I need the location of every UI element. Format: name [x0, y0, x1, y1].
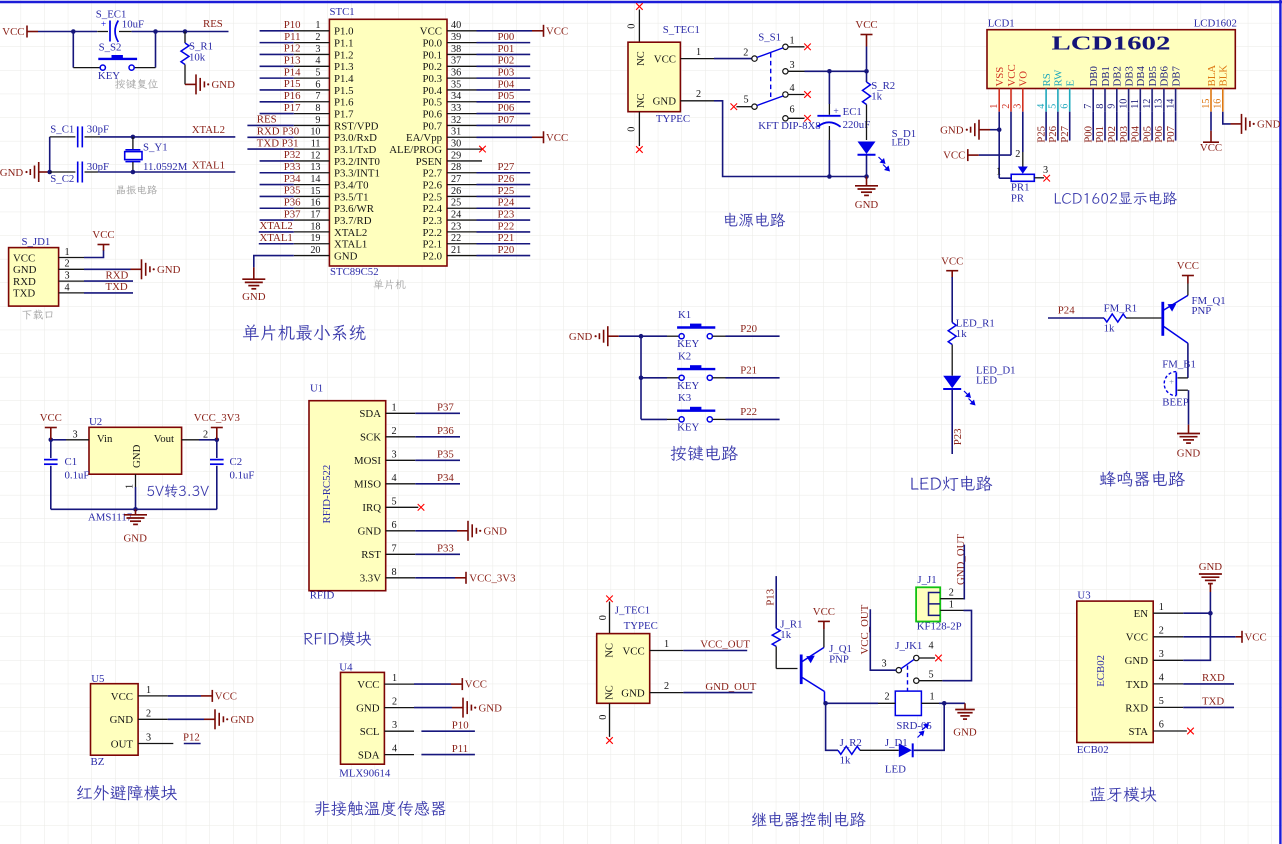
svg-text:RXD: RXD	[1202, 672, 1225, 684]
power port VCC (buzzer)	[1177, 260, 1199, 283]
J_TEC1 pin 1	[650, 639, 684, 651]
wire LCD DB0 / net P00	[1082, 112, 1094, 143]
svg-text:2: 2	[696, 89, 701, 100]
J_TEC1 bottom pin 0	[598, 703, 610, 737]
svg-text:9: 9	[1107, 104, 1118, 109]
sensor U4 MLX90614 body	[339, 661, 391, 779]
svg-text:STA: STA	[1128, 726, 1148, 738]
wire LCD DB5 / net P05	[1141, 112, 1153, 143]
svg-text:4: 4	[392, 744, 397, 755]
svg-text:S_S1: S_S1	[758, 32, 781, 44]
svg-text:RFID-RC522: RFID-RC522	[321, 465, 333, 524]
power port GND (keys)	[569, 326, 619, 346]
svg-text:P21: P21	[498, 232, 515, 244]
resistor FM_R1 1k	[1104, 302, 1162, 334]
svg-text:0: 0	[627, 127, 638, 132]
wire VCC to FM_Q1 emitter	[1187, 284, 1189, 296]
power port GND (power circuit)	[855, 177, 879, 212]
svg-text:VCC: VCC	[465, 679, 487, 691]
connector J_J1 KF128-2P	[916, 574, 963, 633]
svg-text:1: 1	[146, 685, 151, 696]
svg-text:3: 3	[1159, 649, 1164, 660]
switch K3 KEY	[641, 392, 726, 433]
svg-text:J_JK1: J_JK1	[895, 640, 922, 652]
svg-text:1: 1	[989, 104, 1000, 109]
power port GND (U1)	[457, 521, 507, 541]
U1 pin 2 SCK	[360, 426, 415, 444]
svg-text:P06: P06	[1153, 125, 1165, 142]
svg-text:DB7: DB7	[1170, 66, 1182, 87]
svg-text:2: 2	[392, 426, 397, 437]
wire LCD RW / net P26	[1047, 112, 1059, 143]
svg-text:30: 30	[451, 139, 461, 150]
wire U2 gnd rail	[51, 508, 217, 510]
svg-text:P25: P25	[1035, 126, 1047, 143]
svg-text:P22: P22	[498, 220, 515, 232]
no-connect X (J_TEC1 bottom)	[606, 737, 613, 744]
LCD1 pin 4 RS	[1036, 73, 1053, 111]
wire P36	[415, 436, 460, 438]
junction (EC1 top)	[827, 69, 832, 74]
svg-text:P34: P34	[437, 472, 454, 484]
svg-text:P3.6/WR: P3.6/WR	[334, 203, 375, 215]
svg-text:RW: RW	[1053, 69, 1065, 87]
svg-text:P24: P24	[1058, 305, 1075, 317]
svg-text:P2.2: P2.2	[422, 227, 442, 239]
no-connect X (J_JK1 pin4)	[935, 655, 942, 662]
title 蜂鸣器电路	[1100, 471, 1185, 487]
svg-text:SCK: SCK	[360, 432, 381, 444]
svg-text:J_R2: J_R2	[840, 737, 862, 749]
STC1 pin 15 P3.5/T1	[260, 185, 369, 204]
svg-text:17: 17	[310, 209, 320, 220]
U5 pin 3 OUT	[111, 733, 174, 751]
svg-text:GND: GND	[621, 687, 645, 699]
svg-text:37: 37	[451, 56, 461, 67]
no-connect X (U3 STA)	[1187, 728, 1194, 735]
svg-text:3: 3	[882, 659, 887, 670]
switch K1 KEY	[667, 309, 726, 350]
svg-text:P26: P26	[498, 173, 515, 185]
junction (relay coil left)	[823, 701, 828, 706]
power port GND (reset)	[185, 74, 235, 94]
svg-text:P3.1/TxD: P3.1/TxD	[334, 144, 376, 156]
svg-text:5: 5	[315, 68, 320, 79]
LCD1 pin 2 VCC	[1001, 64, 1018, 111]
LCD1 pin 7 DB0	[1083, 66, 1100, 112]
svg-text:1: 1	[392, 673, 397, 684]
svg-text:P1.7: P1.7	[334, 109, 354, 121]
svg-text:0: 0	[627, 24, 638, 29]
svg-text:4: 4	[1036, 104, 1047, 109]
U1 pin 7 RST	[361, 543, 415, 561]
svg-text:3: 3	[790, 60, 795, 71]
svg-text:GND: GND	[484, 526, 508, 538]
wire LCD BLK	[1223, 112, 1231, 124]
svg-text:SDA: SDA	[359, 408, 381, 420]
annotation 单片机	[374, 279, 406, 289]
svg-text:K3: K3	[678, 392, 691, 404]
svg-text:VCC: VCC	[654, 53, 676, 65]
svg-text:VCC: VCC	[92, 229, 114, 241]
STC1 pin 23 P2.2	[422, 220, 530, 239]
wire GND_OUT	[683, 692, 752, 694]
svg-text:P11: P11	[452, 743, 468, 755]
svg-text:XTAL1: XTAL1	[260, 232, 293, 244]
svg-text:4: 4	[790, 83, 795, 94]
svg-text:K1: K1	[678, 309, 691, 321]
wire LCD DB7 / net P07	[1165, 112, 1177, 143]
U4 pin 4 SDA	[358, 744, 414, 762]
wire VCC to S_EC1	[38, 31, 97, 33]
svg-text:P32: P32	[284, 149, 301, 161]
svg-text:P01: P01	[498, 43, 515, 55]
svg-text:Vout: Vout	[154, 433, 174, 445]
svg-text:IRQ: IRQ	[362, 502, 381, 514]
svg-text:15: 15	[310, 186, 320, 197]
svg-text:P3.4/T0: P3.4/T0	[334, 179, 369, 191]
svg-text:P01: P01	[1094, 126, 1106, 143]
svg-text:9: 9	[315, 115, 320, 126]
svg-text:1k: 1k	[1104, 323, 1115, 335]
svg-text:11: 11	[1130, 99, 1141, 109]
svg-text:GND: GND	[1177, 448, 1201, 460]
connector S_JD1 下载口	[9, 236, 59, 306]
svg-text:18: 18	[310, 221, 320, 232]
STC1 pin 29 PSEN	[416, 150, 482, 168]
svg-text:P10: P10	[452, 719, 469, 731]
svg-text:P02: P02	[1106, 126, 1118, 143]
wire TXD	[84, 292, 133, 294]
svg-text:27: 27	[451, 174, 461, 185]
wire S_JD1 GND	[84, 268, 131, 270]
power port GND (U4)	[452, 698, 502, 718]
no-connect X (J_TEC1 top)	[606, 596, 613, 603]
svg-text:2: 2	[203, 429, 208, 440]
svg-text:14: 14	[1165, 99, 1176, 109]
title LED灯电路	[911, 476, 992, 492]
svg-text:P23: P23	[498, 208, 515, 220]
svg-text:GND: GND	[358, 526, 382, 538]
junction (XTAL1)	[131, 170, 136, 175]
svg-text:P1.1: P1.1	[334, 38, 354, 50]
switch S_S1 KFT DIP-8X8	[736, 32, 820, 132]
svg-text:P33: P33	[437, 542, 454, 554]
lcd LCD1 LCD1602 body	[987, 17, 1237, 88]
wire Vout to VCC_3V3	[199, 439, 217, 441]
svg-text:P2.7: P2.7	[422, 168, 442, 180]
svg-text:3: 3	[146, 733, 151, 744]
svg-text:P20: P20	[740, 323, 757, 335]
STC1 pin 18 XTAL2	[259, 220, 368, 239]
resistor J_R1 1k	[772, 618, 802, 668]
wire keys gnd	[619, 335, 667, 337]
svg-text:P07: P07	[498, 114, 515, 126]
svg-text:P2.4: P2.4	[422, 203, 442, 215]
STC1 pin 31 EA/Vpp	[406, 127, 568, 145]
wire S_EC1 to RES node	[132, 31, 229, 33]
potentiometer PR1 PR	[996, 149, 1048, 205]
wire U3 RXD / net TXD	[1183, 706, 1234, 708]
svg-text:5: 5	[744, 95, 749, 106]
STC1 pin 39 P0.0	[422, 31, 530, 50]
svg-text:P2.0: P2.0	[422, 250, 442, 262]
svg-text:3: 3	[73, 429, 78, 440]
STC1 pin 13 P3.3/INT1	[260, 161, 380, 180]
title 蓝牙模块	[1090, 787, 1157, 802]
STC1 pin 19 XTAL1	[259, 232, 368, 251]
buzzer FM_B1 BEEP	[1162, 358, 1196, 408]
STC1 pin 32 P0.7	[422, 114, 530, 133]
U5 pin 2 GND	[110, 708, 168, 726]
svg-text:RST/VPD: RST/VPD	[334, 120, 379, 132]
svg-text:U4: U4	[339, 661, 353, 673]
wire P35	[415, 459, 460, 461]
svg-text:0.1uF: 0.1uF	[230, 469, 255, 481]
svg-text:2: 2	[65, 259, 70, 270]
svg-text:DB4: DB4	[1135, 66, 1147, 87]
svg-text:DB1: DB1	[1100, 66, 1112, 86]
svg-text:GND: GND	[157, 264, 181, 276]
svg-text:KF128-2P: KF128-2P	[917, 621, 962, 633]
svg-text:1: 1	[930, 692, 935, 703]
wire LCD DB2 / net P02	[1106, 112, 1118, 143]
svg-text:TYPEC: TYPEC	[656, 113, 690, 125]
svg-text:7: 7	[1083, 104, 1094, 109]
svg-text:VCC: VCC	[2, 26, 24, 38]
junction (K2)	[639, 376, 644, 381]
svg-text:0.1uF: 0.1uF	[65, 469, 90, 481]
S_TEC1 bottom pin 0	[627, 112, 640, 146]
STC1 pin 16 P3.6/WR	[260, 196, 375, 215]
svg-text:38: 38	[451, 44, 461, 55]
wire coil row	[826, 702, 878, 704]
U1 pin 5 IRQ	[362, 496, 418, 514]
svg-text:P0.6: P0.6	[422, 109, 442, 121]
svg-text:XTAL2: XTAL2	[192, 124, 225, 136]
wire P10	[421, 730, 475, 732]
svg-text:+: +	[833, 107, 838, 117]
svg-text:VCC: VCC	[813, 606, 835, 618]
power port VCC (U5)	[201, 690, 237, 703]
wire P33	[415, 553, 460, 555]
svg-text:1k: 1k	[956, 328, 967, 340]
svg-text:2: 2	[315, 32, 320, 43]
power port VCC (U3)	[1236, 631, 1267, 644]
STC1 pin 6 P1.5	[260, 78, 354, 97]
LCD1 pin 10 DB3	[1118, 66, 1135, 112]
svg-text:KEY: KEY	[677, 421, 699, 433]
power port GND (LCD BLK)	[1231, 114, 1281, 134]
power port VCC (S_JD1)	[92, 229, 114, 250]
svg-text:GND: GND	[356, 703, 380, 715]
wire crystal gnd up	[49, 137, 51, 172]
svg-text:13: 13	[1154, 99, 1165, 109]
U3 pin 2 VCC	[1126, 625, 1183, 643]
switch S_S2 KEY	[73, 42, 155, 82]
wire U3 GND pin	[1183, 613, 1210, 660]
wire S_TEC1 pin1 to S_S1	[714, 58, 752, 60]
STC1 pin 4 P1.3	[260, 54, 354, 73]
svg-text:1: 1	[696, 47, 701, 58]
U1 pin 6 GND	[358, 520, 416, 538]
svg-text:1: 1	[1159, 602, 1164, 613]
STC1 pin 38 P0.1	[422, 43, 530, 62]
svg-text:16: 16	[1213, 99, 1224, 109]
STC1 pin 8 P1.7	[260, 102, 355, 121]
S_JD1 pin 1 VCC	[13, 247, 84, 264]
svg-text:1k: 1k	[840, 755, 851, 767]
svg-text:BEEP: BEEP	[1162, 396, 1188, 408]
svg-text:PSEN: PSEN	[416, 156, 443, 168]
svg-text:J_J1: J_J1	[917, 574, 936, 586]
svg-text:GND_OUT: GND_OUT	[955, 534, 967, 585]
svg-text:GND: GND	[940, 125, 964, 137]
svg-text:5: 5	[1159, 696, 1164, 707]
annotation 晶振电路	[117, 185, 157, 195]
power port VCC (U4)	[451, 678, 487, 691]
transistor J_Q1 PNP	[801, 643, 852, 704]
svg-text:P10: P10	[284, 19, 301, 31]
svg-text:P2.1: P2.1	[422, 239, 442, 251]
svg-text:3: 3	[392, 449, 397, 460]
svg-text:DB5: DB5	[1147, 66, 1159, 86]
svg-text:DB2: DB2	[1112, 66, 1124, 86]
junction (U3 gnd)	[1208, 611, 1213, 616]
svg-text:LED: LED	[892, 139, 910, 149]
svg-text:26: 26	[451, 186, 461, 197]
svg-text:LCD1602: LCD1602	[1052, 33, 1171, 55]
svg-text:32: 32	[451, 115, 461, 126]
svg-text:1k: 1k	[871, 91, 882, 103]
svg-text:P3.3/INT1: P3.3/INT1	[334, 168, 380, 180]
title 单片机最小系统	[243, 324, 366, 340]
STC1 pin 9 RST/VPD	[247, 114, 378, 133]
svg-text:2: 2	[392, 697, 397, 708]
svg-text:P1.2: P1.2	[334, 49, 354, 61]
wire P11	[421, 754, 475, 756]
svg-text:P05: P05	[498, 90, 515, 102]
capacitor S_C1 30pF	[50, 123, 109, 147]
svg-text:DB6: DB6	[1159, 66, 1171, 87]
svg-text:GND: GND	[569, 331, 593, 343]
svg-text:25: 25	[451, 198, 461, 209]
svg-text:BLA: BLA	[1206, 65, 1218, 87]
wire coil to gnd	[939, 702, 965, 704]
no-connect X (S_TEC1 top)	[636, 3, 643, 10]
svg-text:VO: VO	[1018, 71, 1030, 87]
J_TEC1 pin 2	[650, 681, 684, 693]
power port GND (crystal)	[0, 162, 50, 182]
wire PR1 pin1	[999, 177, 1011, 179]
U3 pin 6 STA	[1128, 720, 1186, 738]
svg-text:P37: P37	[437, 401, 454, 413]
svg-text:LED: LED	[885, 763, 906, 775]
wire VCC_OUT to J_JK1 pin3	[870, 609, 896, 670]
title 红外避障模块	[77, 785, 177, 801]
sheet border right	[1279, 0, 1281, 844]
U2 pin 1 GND	[125, 474, 136, 509]
svg-text:GND: GND	[1199, 561, 1223, 573]
STC1 pin 2 P1.1	[260, 31, 354, 50]
wire VCC to J_Q1 emitter	[823, 629, 825, 647]
svg-text:3.3V: 3.3V	[360, 573, 381, 585]
svg-text:P15: P15	[284, 78, 301, 90]
svg-text:PNP: PNP	[1192, 305, 1212, 317]
annotation 按键复位	[115, 79, 158, 89]
resistor S_R1 10k	[181, 32, 213, 85]
power port VCC_3V3 (U1)	[455, 572, 516, 585]
svg-text:33: 33	[451, 103, 461, 114]
svg-text:P16: P16	[284, 90, 301, 102]
wire J_D1 to junction	[914, 703, 945, 750]
U4 pin 3 SCL	[360, 720, 414, 738]
svg-text:XTAL1: XTAL1	[192, 159, 225, 171]
svg-text:P00: P00	[498, 31, 515, 43]
wire U4 GND	[414, 707, 452, 709]
led J_D1 LED	[885, 724, 928, 776]
svg-text:U1: U1	[310, 383, 323, 395]
svg-text:PNP: PNP	[829, 653, 849, 665]
svg-text:16: 16	[310, 198, 320, 209]
STC1 pin 30 ALE/PROG	[389, 139, 486, 157]
STC1 pin 7 P1.6	[260, 90, 355, 109]
power port VCC (LCD BLA)	[1200, 131, 1222, 154]
wire LCD VCC pin2	[1010, 112, 1012, 155]
svg-text:30pF: 30pF	[87, 123, 109, 135]
regulator U2 AMS1117 body	[88, 416, 182, 523]
wire P34	[415, 483, 460, 485]
LCD1 pin 11 DB4	[1130, 66, 1147, 112]
svg-text:P00: P00	[1082, 126, 1094, 143]
svg-text:GND: GND	[334, 250, 358, 262]
STC1 pin 26 P2.5	[422, 185, 530, 204]
relay J_JK1 SRD-05	[878, 640, 942, 732]
svg-text:TXD: TXD	[106, 281, 128, 293]
svg-text:P0.4: P0.4	[422, 85, 442, 97]
title LCD1602显示电路	[1055, 191, 1177, 205]
power port VCC (LED)	[941, 255, 963, 277]
LCD1 pin 5 RW	[1048, 69, 1065, 112]
svg-text:S_Y1: S_Y1	[143, 141, 168, 153]
svg-text:KFT DIP-8X8: KFT DIP-8X8	[758, 120, 821, 132]
svg-text:S_C1: S_C1	[50, 123, 74, 135]
power port GND (LCD left)	[940, 120, 999, 140]
svg-text:P35: P35	[437, 448, 454, 460]
svg-text:VCC: VCC	[1126, 632, 1148, 644]
U2 pin 2 Vout	[182, 429, 208, 440]
svg-text:1: 1	[392, 402, 397, 413]
crystal S_Y1 11.0592M	[125, 137, 188, 173]
connector S_TEC1 TYPEC body	[628, 24, 700, 125]
junction (relay right)	[942, 701, 947, 706]
svg-text:10k: 10k	[189, 51, 206, 63]
svg-text:P36: P36	[437, 425, 454, 437]
wire LCD RS / net P25	[1035, 112, 1047, 143]
svg-text:P05: P05	[1141, 126, 1153, 143]
title 电源电路	[725, 213, 785, 227]
no-connect X (S_TEC1 bottom)	[636, 146, 643, 153]
svg-text:FM_B1: FM_B1	[1162, 358, 1196, 370]
svg-text:P1.6: P1.6	[334, 97, 354, 109]
svg-text:P20: P20	[498, 244, 515, 256]
svg-text:+: +	[1169, 377, 1174, 387]
svg-text:EA/Vpp: EA/Vpp	[406, 132, 442, 144]
svg-text:VCC: VCC	[1245, 631, 1267, 643]
svg-text:RES: RES	[257, 114, 277, 126]
svg-text:DB0: DB0	[1088, 66, 1100, 86]
junction (RES node)	[183, 29, 188, 34]
